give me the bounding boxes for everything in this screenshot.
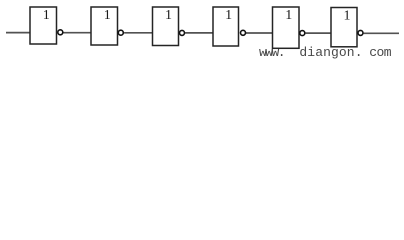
inverter U3	[153, 7, 179, 46]
wire U3 to U4	[185, 32, 213, 34]
wire U5 to U6	[306, 32, 331, 34]
bubble U2 output	[118, 30, 123, 35]
svg-text:1: 1	[225, 8, 232, 23]
inverter U6	[331, 8, 357, 47]
inverter U5	[273, 7, 300, 48]
wire U1 to U2	[63, 32, 91, 34]
svg-text:1: 1	[344, 9, 351, 24]
inverter U2	[91, 7, 118, 45]
bubble U3 output	[180, 30, 185, 35]
bubble U6 output	[358, 30, 363, 35]
inverter U1	[30, 7, 57, 44]
svg-text:1: 1	[104, 8, 111, 23]
bubble U4 output	[241, 30, 246, 35]
svg-text:1: 1	[43, 8, 50, 23]
wire U2 to U3	[124, 32, 152, 34]
bubble U5 output	[300, 31, 305, 36]
svg-text:1: 1	[285, 8, 292, 23]
svg-text:com: com	[369, 45, 392, 60]
wire input segment	[6, 32, 30, 34]
wire U4 to U5	[245, 32, 272, 34]
watermark www.diangon.com	[259, 45, 392, 60]
wire output segment	[364, 32, 399, 34]
bubble U1 output	[58, 30, 63, 35]
inverter U4	[213, 7, 239, 46]
svg-text:1: 1	[165, 8, 172, 23]
